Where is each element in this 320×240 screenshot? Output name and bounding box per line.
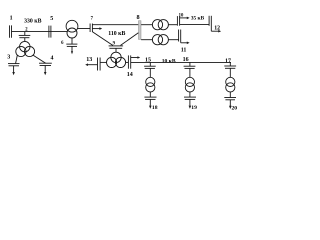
- load arrow 3: [12, 66, 15, 75]
- svg-text:7: 7: [91, 17, 94, 22]
- load arrow 18: [149, 99, 152, 108]
- svg-text:6: 6: [61, 41, 64, 46]
- wire T3 to bars 13: [100, 61, 106, 63]
- double-bar 14: [128, 55, 130, 68]
- wire 110kV bars7 to busbar 8: [92, 24, 138, 26]
- wire T4 to bars 10: [168, 24, 177, 26]
- double-bar 2: [19, 35, 31, 37]
- double-bar 16: [184, 66, 196, 68]
- load arrow 12: [211, 30, 221, 33]
- wire T2 to bars 7: [78, 28, 91, 30]
- wire busbar8 to transformer pair B: [141, 39, 152, 41]
- wire drop 15: [149, 62, 151, 66]
- wire 330kV bus: [12, 31, 68, 33]
- wire drop at node 2: [24, 32, 26, 36]
- wire diagonal to load 3: [16, 55, 18, 63]
- load arrow 19: [189, 99, 192, 108]
- svg-text:4: 4: [51, 56, 54, 62]
- svg-text:11: 11: [181, 47, 187, 53]
- wire bars9 to trefoil T3: [115, 48, 117, 52]
- svg-text:3: 3: [7, 55, 10, 61]
- double-bar 18: [144, 97, 156, 99]
- two-winding transformer T8: [226, 77, 235, 92]
- load arrow 10: [180, 17, 190, 20]
- load arrow 14: [131, 56, 141, 59]
- svg-text:20: 20: [232, 106, 238, 112]
- svg-text:1: 1: [10, 15, 13, 21]
- svg-text:18: 18: [152, 105, 158, 111]
- wire diagonal to load 4: [33, 55, 46, 63]
- two-winding transformer T2 (330/110): [66, 20, 78, 38]
- wire bars17 to T8: [229, 68, 231, 77]
- node 5 double-bar: [49, 26, 51, 38]
- svg-text:13: 13: [86, 57, 92, 63]
- wire T2 to shunt 6: [71, 38, 73, 44]
- two-winding transformer T5: [152, 35, 168, 45]
- two-winding transformer T6: [146, 77, 155, 92]
- wire bars15 to T6: [149, 68, 151, 77]
- busbar 8: [139, 21, 142, 40]
- two-winding transformer T7: [185, 77, 194, 92]
- load arrow 7: [92, 27, 102, 30]
- three-winding autotransformer T1 (trefoil): [16, 41, 35, 56]
- wire T3 to bars 14: [126, 61, 129, 63]
- svg-text:35 кВ: 35 кВ: [191, 16, 205, 22]
- load arrow 20: [229, 100, 232, 109]
- wire T7 to load bars: [189, 92, 191, 97]
- wire bars10 to bars 12 (35kV line): [180, 24, 210, 26]
- svg-text:110 кВ: 110 кВ: [108, 31, 125, 37]
- svg-text:8: 8: [137, 14, 140, 21]
- node 1 double-bar (330 kV line end): [10, 25, 12, 37]
- wire T5 to bars 11: [168, 39, 178, 41]
- double-bar 9: [109, 46, 124, 48]
- arrow 6: [71, 46, 73, 54]
- wire bars2 to autotransformer: [24, 38, 26, 42]
- wire T6 to load bars: [149, 92, 151, 97]
- svg-text:16: 16: [183, 57, 189, 63]
- load arrow 13: [85, 63, 97, 66]
- double-bar 17: [224, 66, 236, 68]
- wire diagonal bars7 to node 9: [92, 32, 112, 46]
- svg-text:330 кВ: 330 кВ: [24, 19, 41, 25]
- double-bar 20: [224, 98, 236, 100]
- wire diagonal busbar8 to node 9: [121, 33, 139, 46]
- svg-text:5: 5: [50, 16, 53, 22]
- load arrow 4: [44, 66, 47, 76]
- svg-text:19: 19: [191, 105, 197, 111]
- double-bar 4: [39, 63, 52, 65]
- load arrow 11: [181, 42, 190, 45]
- double-bar 10: [177, 16, 179, 26]
- two-winding transformer T4: [152, 20, 168, 30]
- double-bar 19: [184, 97, 196, 99]
- double-bar 12: [209, 16, 211, 31]
- three-winding transformer T3 (trefoil): [107, 52, 126, 67]
- svg-text:14: 14: [127, 72, 133, 78]
- svg-text:10 кВ: 10 кВ: [162, 58, 176, 64]
- double-bar 6: [66, 44, 77, 46]
- double-bar 3: [8, 64, 20, 66]
- double-bar 13: [98, 58, 101, 71]
- wire T8 to load bars: [229, 92, 231, 98]
- wire 10kV bus: [131, 61, 231, 63]
- double-bar 7: [90, 24, 92, 33]
- wire drop 17: [229, 62, 231, 66]
- double-bar 11: [179, 30, 181, 43]
- double-bar 15: [144, 66, 156, 68]
- wire bars16 to T7: [189, 68, 191, 77]
- wire drop 16: [189, 62, 191, 66]
- wire busbar8 to transformer pair A: [141, 24, 152, 26]
